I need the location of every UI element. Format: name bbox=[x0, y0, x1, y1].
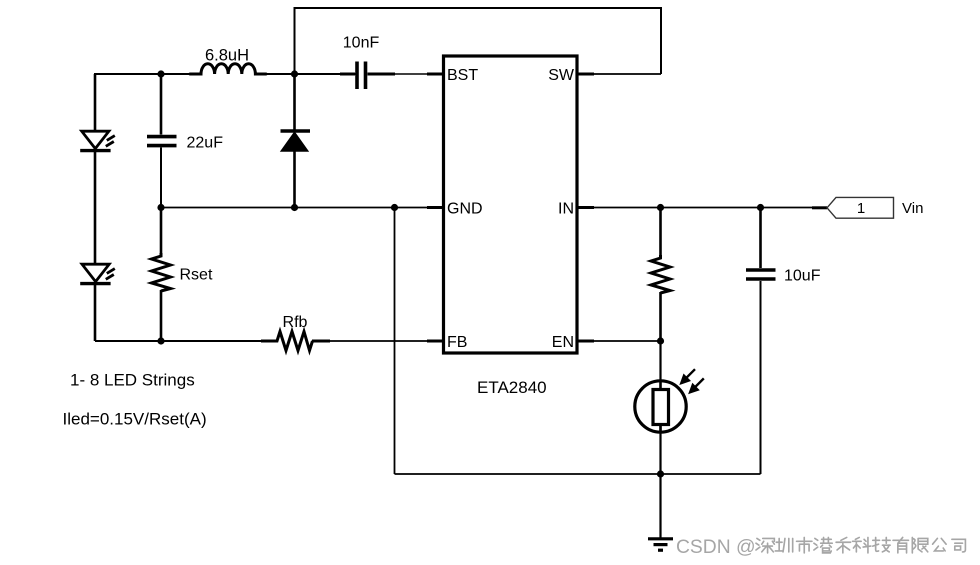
wire bottom-left row to Rfb bbox=[95, 340, 261, 342]
photoresistor LDR1 bbox=[635, 341, 704, 474]
pin stub GND bbox=[427, 206, 444, 209]
svg-text:Rfb: Rfb bbox=[283, 314, 308, 331]
node Rset bottom junction bbox=[157, 337, 164, 344]
wire ground net vertical bbox=[394, 208, 396, 475]
resistor Rfb bbox=[261, 332, 330, 351]
capacitor C2 22uF bbox=[147, 74, 177, 208]
svg-text:10nF: 10nF bbox=[343, 35, 380, 52]
svg-text:10uF: 10uF bbox=[784, 268, 821, 285]
wire GND row bbox=[161, 207, 443, 209]
pin stub SW bbox=[576, 73, 594, 76]
diode D3 bbox=[281, 74, 311, 208]
pin stub BST bbox=[427, 73, 444, 76]
svg-text:EN: EN bbox=[552, 334, 574, 351]
svg-text:IN: IN bbox=[558, 201, 574, 218]
node ground net tap junction bbox=[391, 204, 398, 211]
pin stub EN bbox=[576, 340, 594, 343]
svg-text:Iled=0.15V/Rset(A): Iled=0.15V/Rset(A) bbox=[63, 410, 207, 429]
svg-text:1- 8 LED Strings: 1- 8 LED Strings bbox=[70, 371, 195, 390]
IC U1 ETA2840 bbox=[444, 56, 578, 353]
svg-text:CSDN @: CSDN @ bbox=[676, 537, 756, 558]
svg-text:SW: SW bbox=[548, 67, 575, 84]
svg-text:FB: FB bbox=[447, 334, 467, 351]
capacitor C1 10nF bbox=[340, 62, 395, 90]
resistor Rset bbox=[152, 208, 171, 342]
wire top loop SW to switch node bbox=[295, 8, 662, 74]
svg-text:1: 1 bbox=[857, 200, 865, 217]
pin stub IN bbox=[576, 206, 594, 209]
LED D2 bbox=[80, 210, 115, 341]
node EN LDR junction bbox=[657, 337, 664, 344]
pin stub FB bbox=[427, 340, 444, 343]
wire EN to resistor bottom bbox=[594, 340, 661, 342]
wire SW to top loop bbox=[594, 73, 661, 75]
wire bootstrap cap to BST pin bbox=[368, 73, 444, 75]
resistor R2 bbox=[651, 208, 670, 342]
node switch junction bbox=[291, 70, 298, 77]
wire IN row to Vin bbox=[594, 207, 827, 209]
watermark CJK glyphs bbox=[756, 537, 965, 552]
svg-text:ETA2840: ETA2840 bbox=[477, 378, 547, 397]
inductor L1 6.8uH bbox=[190, 64, 266, 74]
wire node SW-L to inductor bbox=[161, 73, 200, 75]
connector flag Vin pin 1 bbox=[827, 197, 894, 218]
capacitor C3 10uF bbox=[746, 208, 776, 475]
node LED rail top junction bbox=[157, 70, 164, 77]
svg-text:GND: GND bbox=[447, 201, 483, 218]
svg-text:Rset: Rset bbox=[180, 267, 213, 284]
node 22uF Rset junction bbox=[157, 204, 164, 211]
wire switch node to bootstrap cap bbox=[295, 73, 357, 75]
wire ground net bottom row bbox=[395, 473, 761, 475]
node EN resistor top junction bbox=[657, 204, 664, 211]
node diode anode junction bbox=[291, 204, 298, 211]
svg-text:BST: BST bbox=[447, 67, 478, 84]
wire Rfb to FB pin bbox=[330, 340, 443, 342]
svg-text:22uF: 22uF bbox=[187, 135, 224, 152]
svg-text:6.8uH: 6.8uH bbox=[205, 47, 249, 65]
wire inductor to switch node bbox=[255, 73, 295, 75]
LED D1 bbox=[80, 74, 115, 210]
ground bbox=[648, 474, 673, 550]
node 10uF top junction bbox=[757, 204, 764, 211]
wire left rail top segment bbox=[95, 74, 161, 131]
pin stub Vin connector bbox=[812, 206, 827, 209]
node ground bottom junction bbox=[657, 470, 664, 477]
svg-text:Vin: Vin bbox=[902, 200, 923, 217]
